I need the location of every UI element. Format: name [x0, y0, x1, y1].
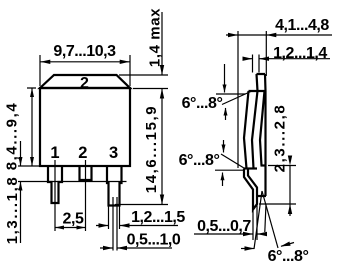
svg-text:2,3...2,8: 2,3...2,8	[272, 104, 289, 173]
body bottom back edge	[261, 164, 267, 166]
svg-text:6°...8°: 6°...8°	[179, 152, 220, 169]
svg-text:2: 2	[80, 75, 89, 92]
angle slant line	[222, 91, 253, 105]
down arrow	[224, 64, 226, 93]
angle ref horizontal	[215, 169, 244, 171]
lead 1 wide part	[48, 166, 62, 203]
svg-text:6°...8°: 6°...8°	[268, 248, 309, 265]
tab back vertical	[264, 91, 266, 196]
svg-text:1,4 max: 1,4 max	[147, 8, 164, 67]
svg-text:1: 1	[50, 144, 59, 162]
right arrow	[281, 243, 294, 247]
svg-text:0,5...1,0: 0,5...1,0	[127, 232, 181, 249]
left arrow	[241, 248, 254, 250]
svg-text:9,7...10,3: 9,7...10,3	[53, 43, 116, 60]
up arrow	[222, 173, 224, 187]
svg-text:8,4...9,4: 8,4...9,4	[4, 102, 21, 171]
svg-text:1,2...1,4: 1,2...1,4	[273, 45, 327, 62]
lead 2 stub	[80, 166, 92, 180]
svg-text:4,1...4,8: 4,1...4,8	[275, 17, 329, 34]
body front draft edge	[252, 91, 258, 169]
extension lines body bottom / lead shoulder	[18, 166, 127, 182]
angle slant line	[221, 154, 244, 168]
tab trapezoid	[40, 75, 130, 88]
angle line right branch	[262, 191, 278, 248]
svg-text:2,5: 2,5	[63, 211, 84, 228]
angle ref horizontal	[216, 93, 246, 95]
body bottom front edge	[244, 167, 258, 169]
tab upper part (above body)	[257, 74, 266, 91]
svg-text:1,2...1,5: 1,2...1,5	[131, 209, 185, 226]
package body	[40, 88, 130, 166]
down arrow	[223, 140, 225, 153]
lead side profile (Z bend)	[244, 169, 257, 210]
svg-text:6°...8°: 6°...8°	[182, 95, 223, 112]
up arrow	[225, 108, 227, 120]
lead 3	[107, 166, 122, 206]
svg-text:3: 3	[109, 144, 118, 162]
svg-text:1,3...1,8: 1,3...1,8	[4, 176, 21, 245]
body back draft edge	[260, 91, 265, 166]
back extension below tab	[265, 204, 266, 232]
svg-text:2: 2	[78, 144, 87, 162]
body front silhouette	[244, 91, 249, 169]
svg-text:14,6...15,9: 14,6...15,9	[143, 105, 160, 194]
tab bottom edge	[257, 195, 266, 197]
body top edge	[249, 90, 266, 92]
angle line left branch	[254, 191, 262, 249]
